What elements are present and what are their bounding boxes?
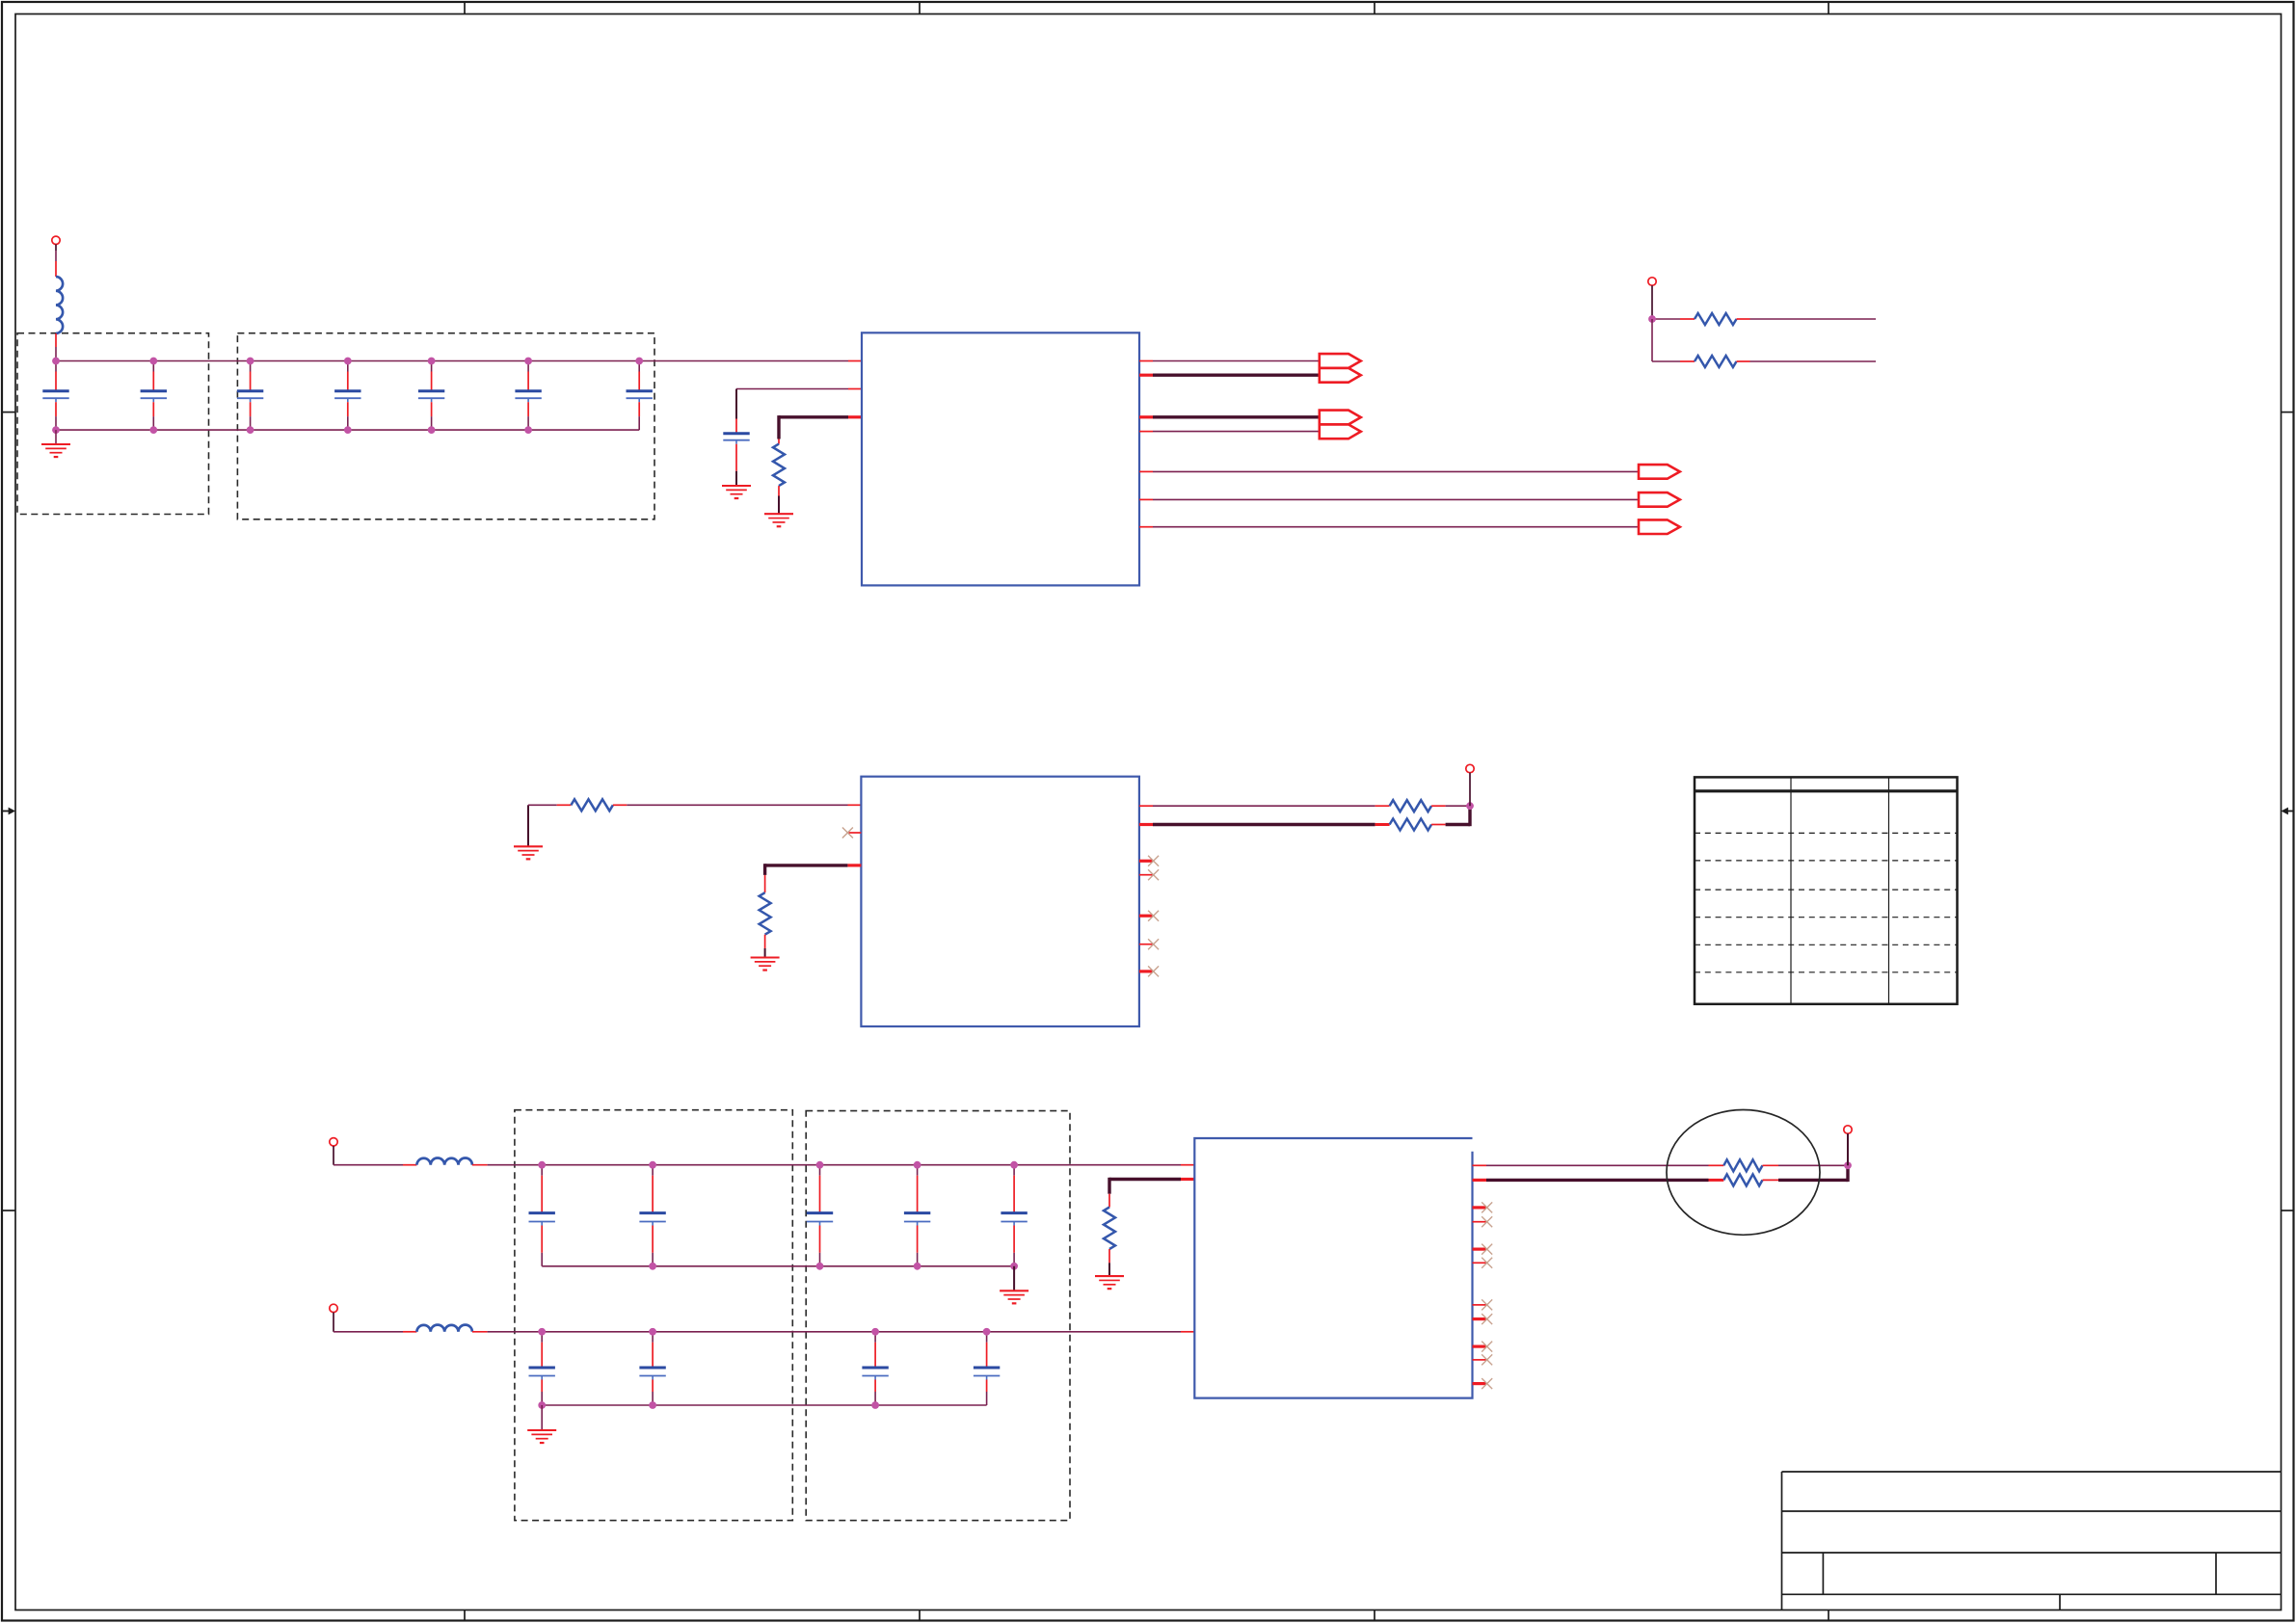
pin stub U1 pin4 — [1139, 360, 1153, 362]
wire C1 to ground — [55, 430, 57, 444]
zone tick bottom 1 — [464, 1610, 466, 1621]
wire R4 vert — [527, 805, 529, 846]
junction row1 top 3 — [816, 1161, 824, 1169]
pin stub U3 nc1 — [1473, 1206, 1487, 1209]
zone tick left 1 — [2, 412, 15, 413]
no-connect U3 nc6 X — [1482, 1314, 1492, 1324]
capacitor C6 — [515, 361, 541, 431]
pin stub U3 pin3 — [1181, 1178, 1194, 1181]
wire net R3 left — [1652, 360, 1680, 362]
ground G3 — [764, 514, 793, 526]
capacitor C4 — [334, 361, 360, 431]
zone tick right 1 — [2282, 412, 2294, 413]
capacitor C17 — [1001, 1165, 1027, 1266]
capacitor C8 — [723, 432, 749, 435]
junction bus A bottom 4 — [344, 426, 352, 434]
pin stub U2 pin5 — [1139, 823, 1153, 826]
wire net row2 a — [334, 1331, 403, 1333]
junction row1 top 4 — [914, 1161, 921, 1169]
resistor R7 — [1375, 823, 1390, 826]
IC U2 — [861, 777, 1139, 1026]
wire U2 out corner — [1468, 806, 1471, 826]
no-connect U2 nc2 X — [1148, 869, 1159, 880]
capacitor C20 — [862, 1332, 888, 1405]
pin stub U3 pin4 — [1473, 1164, 1487, 1166]
capacitor C19 — [639, 1332, 665, 1405]
pin stub U3 pin5 — [1473, 1179, 1487, 1182]
no-connect U3 nc1 X — [1482, 1202, 1492, 1212]
wire bottom bus A — [56, 429, 639, 431]
junction bus A top 5 — [428, 358, 436, 365]
junction row1 bottom 3 — [914, 1263, 921, 1270]
center mark arrow right — [2282, 808, 2294, 815]
junction bus A bottom 1 — [52, 426, 60, 434]
junction row1 top 2 — [649, 1161, 656, 1169]
ground G6 — [527, 1430, 556, 1443]
wire R5 to ground — [764, 935, 766, 948]
junction row2 top 3 — [871, 1328, 879, 1336]
port pin P3 — [1466, 764, 1474, 772]
wire net U2 out1 b — [1446, 805, 1470, 807]
output connector arrow AR4 — [1639, 492, 1680, 507]
no-connect U2 nc5 X — [1148, 966, 1159, 976]
pin stub U2 nc1 — [1139, 860, 1153, 863]
wire P2 lead — [1651, 285, 1653, 319]
junction bus A bottom 6 — [524, 426, 532, 434]
resistor R4 — [557, 804, 572, 806]
zone tick bottom 4 — [1828, 1610, 1829, 1621]
IC U3 — [1194, 1138, 1472, 1398]
wire row1 to ground — [1013, 1266, 1015, 1291]
dashed group box 1 — [17, 333, 209, 515]
output connector arrow AR5 — [1639, 519, 1680, 534]
no-connect U3 nc7 X — [1482, 1342, 1492, 1352]
inductor L3 — [403, 1164, 416, 1166]
capacitor C15 — [807, 1165, 833, 1266]
junction bus A top 2 — [149, 358, 157, 365]
zone tick top 2 — [919, 2, 921, 14]
wire P5 lead — [333, 1146, 334, 1165]
resistor R10 — [1709, 1179, 1724, 1182]
resistor R8 — [1104, 1208, 1115, 1250]
wire net R3 right — [1750, 360, 1877, 362]
wire net U1 out6 — [1153, 498, 1639, 500]
pin stub U2 nc5 — [1139, 970, 1153, 972]
ground G7 — [1000, 1290, 1028, 1303]
pin stub U2 nc2 — [1139, 874, 1153, 876]
junction row1 bottom 2 — [816, 1263, 824, 1270]
inductor L4 — [403, 1331, 416, 1333]
junction bus A top 4 — [344, 358, 352, 365]
pin stub U2 nc4 — [1139, 944, 1153, 945]
no-connect U3 nc4 X — [1482, 1258, 1492, 1268]
wire net R1 horiz — [779, 415, 848, 418]
pin stub U2 pin4 — [1139, 805, 1153, 807]
pin stub U3 nc4 — [1473, 1262, 1487, 1264]
resistor R3 — [1680, 360, 1695, 362]
wire net U3 out2 b — [1778, 1179, 1848, 1182]
wire net U1 out4 — [1153, 431, 1320, 433]
junction J3 — [1844, 1161, 1852, 1169]
wire net U2 out2 b — [1446, 823, 1470, 826]
title block — [1782, 1472, 2282, 1610]
junction bus A top 1 — [52, 358, 60, 365]
pin stub U1 pin5 — [1139, 374, 1153, 377]
port pin P2 — [1648, 278, 1656, 285]
wire P3 lead — [1469, 773, 1471, 807]
junction bus A top 6 — [524, 358, 532, 365]
junction row2 bottom 1 — [538, 1401, 546, 1409]
junction row2 bottom 3 — [871, 1401, 879, 1409]
wire net U3 out1 b — [1778, 1164, 1848, 1166]
wire net row1 b — [488, 1164, 1181, 1166]
capacitor C14 — [639, 1165, 665, 1266]
capacitor C7 — [627, 361, 653, 431]
junction row2 top 4 — [983, 1328, 991, 1336]
no-connect U3 nc9 X — [1482, 1378, 1492, 1389]
pin stub U3 nc7 — [1473, 1344, 1487, 1347]
wire net U1 out2 — [1153, 374, 1320, 377]
capacitor C1 — [42, 361, 68, 431]
pin stub U3 pin2 — [1181, 1331, 1194, 1333]
center mark arrow left — [2, 808, 15, 815]
zone tick top 1 — [464, 2, 466, 14]
pin stub U3 nc9 — [1473, 1382, 1487, 1385]
junction bus A bottom 2 — [149, 426, 157, 434]
output connector arrow AR3 — [1639, 465, 1680, 479]
pin stub U3 pin1 — [1181, 1164, 1194, 1166]
no-connect U3 nc3 X — [1482, 1244, 1492, 1255]
pin stub U1 pin9 — [1139, 498, 1153, 500]
zone tick left 2 — [2, 1210, 15, 1211]
junction bus A top 3 — [247, 358, 254, 365]
wire C8 vert — [735, 389, 737, 419]
dashed group box 3 — [515, 1110, 792, 1521]
wire net U1 out3 — [1153, 415, 1320, 418]
wire net R5 horiz — [765, 864, 848, 866]
wire J1 down — [1651, 319, 1653, 361]
pin stub U2 pin2 nc — [847, 832, 861, 834]
junction row2 bottom 2 — [649, 1401, 656, 1409]
no-connect U3 nc5 X — [1482, 1299, 1492, 1310]
wire P6 lead — [1847, 1133, 1849, 1165]
wire net R8 horiz — [1109, 1178, 1181, 1181]
ground G4 — [514, 846, 543, 859]
junction row1 top 1 — [538, 1161, 546, 1169]
wire R1 vert — [777, 415, 780, 439]
inductor L1 — [56, 277, 63, 333]
wire net U3 out1 a — [1486, 1164, 1709, 1166]
pin stub U3 nc3 — [1473, 1247, 1487, 1250]
wire row2 to ground — [541, 1405, 543, 1430]
no-connect U3 nc8 X — [1482, 1354, 1492, 1365]
wire net U3 out2 a — [1486, 1179, 1709, 1182]
pin stub U1 pin6 — [1139, 415, 1153, 418]
capacitor C16 — [904, 1165, 930, 1266]
resistor R5 — [760, 892, 771, 935]
junction row1 top 5 — [1010, 1161, 1018, 1169]
wire net U1 out7 — [1153, 526, 1639, 528]
ground G5 — [751, 958, 780, 971]
wire R5 vert — [763, 864, 766, 875]
wire net C8 horiz — [736, 388, 848, 390]
junction bus A bottom 3 — [247, 426, 254, 434]
wire net R4 right — [627, 804, 847, 806]
port pin P6 — [1844, 1126, 1852, 1133]
junction row2 top 1 — [538, 1328, 546, 1336]
no-connect U2 nc1 X — [1148, 856, 1159, 866]
wire R8 to ground — [1108, 1249, 1110, 1263]
resistor R9 — [1709, 1164, 1724, 1166]
pin stub U1 pin3 — [848, 415, 862, 418]
pin stub U3 nc5 — [1473, 1304, 1487, 1306]
wire net U1 out1 — [1153, 360, 1320, 362]
pin stub U1 pin1 — [848, 360, 862, 362]
output connector double-arrow AR2 — [1320, 411, 1361, 439]
junction row1 bottom 1 — [649, 1263, 656, 1270]
output connector double-arrow AR1 — [1320, 354, 1361, 383]
revision table — [1695, 777, 1958, 1003]
zone tick bottom 3 — [1374, 1610, 1375, 1621]
wire net row1 a — [334, 1164, 403, 1166]
junction row2 top 2 — [649, 1328, 656, 1336]
wire net R2 left — [1652, 318, 1680, 320]
dashed group box 4 — [806, 1111, 1070, 1521]
no-connect U3 nc2 X — [1482, 1216, 1492, 1227]
wire net R2 right — [1750, 318, 1877, 320]
pin stub U3 nc6 — [1473, 1317, 1487, 1320]
no-connect U2 nc3 X — [1148, 911, 1159, 921]
wire net U1 out5 — [1153, 470, 1639, 472]
pin stub U3 nc8 — [1473, 1359, 1487, 1361]
ground G8 — [1095, 1276, 1124, 1289]
wire net row2 b — [488, 1331, 1181, 1333]
junction bus A bottom 5 — [428, 426, 436, 434]
capacitor C5 — [418, 361, 444, 431]
capacitor C18 — [529, 1332, 555, 1405]
IC U1 — [862, 333, 1139, 585]
pin stub U3 nc2 — [1473, 1221, 1487, 1223]
highlight ellipse — [1667, 1110, 1820, 1236]
zone tick top 3 — [1374, 2, 1375, 14]
junction J1 — [1648, 315, 1656, 323]
pin stub U1 pin10 — [1139, 526, 1153, 528]
resistor R1 — [773, 444, 785, 487]
wire net R4 left — [528, 804, 557, 806]
wire net U2 out2 a — [1153, 823, 1375, 826]
capacitor C2 — [141, 361, 167, 431]
pin stub U2 pin3 — [847, 864, 861, 866]
pin stub U1 pin7 — [1139, 431, 1153, 433]
wire bottom bus row2 — [542, 1404, 986, 1406]
zone tick bottom 2 — [919, 1610, 921, 1621]
pin stub U1 pin8 — [1139, 470, 1153, 472]
port pin P4 — [330, 1304, 337, 1312]
dashed group box 2 — [237, 333, 654, 519]
capacitor C3 — [237, 361, 263, 431]
junction J2 — [1466, 802, 1474, 810]
no-connect U2 nc4 X — [1148, 939, 1159, 949]
pin stub U2 pin1 — [848, 804, 862, 806]
ground G1 — [41, 444, 70, 457]
junction bus A top 7 — [635, 358, 643, 365]
wire P4 lead — [333, 1313, 334, 1332]
capacitor C13 — [529, 1165, 555, 1266]
pin stub U2 nc3 — [1139, 915, 1153, 918]
ground G2 — [722, 486, 751, 498]
no-connect U2 pin2 X — [842, 828, 853, 838]
wire bottom bus row1 — [542, 1265, 1014, 1267]
wire R1 to ground — [778, 486, 780, 495]
wire U3 out corner — [1846, 1165, 1849, 1182]
port pin P1 — [52, 236, 60, 244]
resistor R2 — [1680, 318, 1695, 320]
junction row1 bottom 4 — [1010, 1263, 1018, 1270]
wire R8 vert — [1108, 1178, 1110, 1194]
port pin P5 — [330, 1138, 337, 1146]
wire P1 lead — [55, 245, 57, 252]
wire net U2 out1 a — [1153, 805, 1375, 807]
resistor R6 — [1375, 805, 1390, 807]
pin stub U1 pin2 — [848, 388, 862, 390]
capacitor C21 — [974, 1332, 1000, 1405]
wire top bus A — [56, 360, 848, 362]
wire L1 to bus — [55, 333, 57, 347]
zone tick right 2 — [2282, 1210, 2294, 1211]
zone tick top 4 — [1828, 2, 1829, 14]
